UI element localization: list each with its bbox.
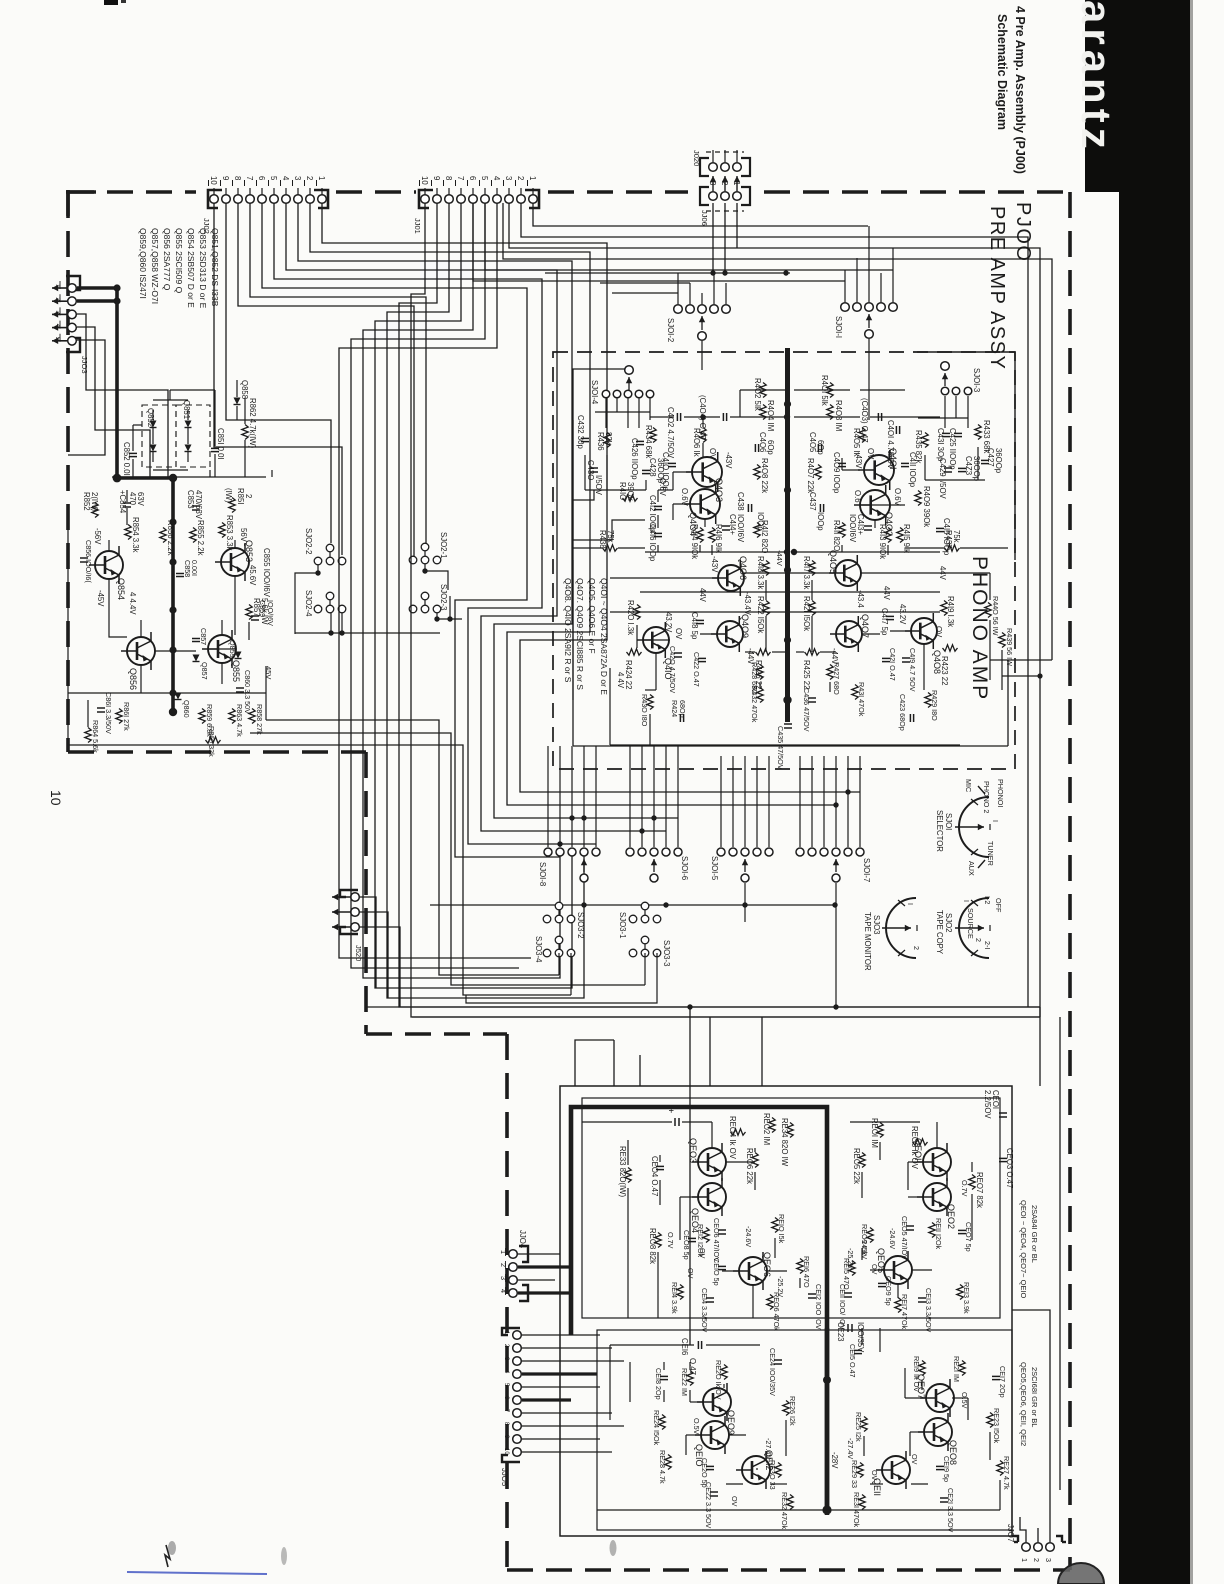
svg-text:C425 IIOOp: C425 IIOOp — [948, 428, 957, 470]
resistor RE16 470 — [797, 1259, 803, 1274]
capacitor C404 0.47 — [722, 413, 724, 421]
svg-text:RE2I IM: RE2I IM — [952, 1356, 961, 1382]
connector row SJ01-1 — [841, 303, 850, 312]
wire PSU top rail — [112, 476, 266, 478]
svg-text:RE3O 33: RE3O 33 — [768, 1460, 777, 1490]
resistor R440 56 1W — [985, 603, 991, 618]
svg-text:SJO3-4: SJO3-4 — [534, 936, 543, 963]
svg-text:R4I9 I.3k: R4I9 I.3k — [946, 596, 955, 627]
capacitor C427 3600p — [981, 459, 989, 461]
resistor R857 5.6k 1W — [246, 605, 252, 620]
resistor RE19 1k — [919, 1361, 925, 1376]
svg-text:R4I6 9Ik: R4I6 9Ik — [714, 524, 723, 553]
transistor Q856 — [121, 632, 155, 670]
svg-text:R4II 82O: R4II 82O — [832, 520, 841, 551]
capacitor C414 100/16V — [722, 525, 730, 527]
capacitor CE24 100/35V — [774, 1359, 782, 1361]
svg-text:Q4OI: Q4OI — [888, 448, 898, 470]
svg-text:JJO5: JJO5 — [500, 1468, 509, 1487]
resistor R855 2.2k — [190, 528, 196, 543]
svg-text:QEO6: QEO6 — [762, 1252, 772, 1277]
svg-text:OV: OV — [934, 626, 943, 638]
long horizontal rails into lower amp — [366, 1006, 1040, 1008]
capacitor C424 680p — [679, 714, 681, 722]
svg-text:C86I 3.3/50V: C86I 3.3/50V — [104, 692, 113, 734]
svg-text:SJOI-7: SJOI-7 — [862, 858, 871, 882]
svg-text:SJO3-1: SJO3-1 — [618, 912, 627, 938]
svg-text:R424: R424 — [670, 700, 679, 717]
resistor R439 56 1W — [999, 633, 1005, 648]
svg-text:REI3 3.9k: REI3 3.9k — [962, 1282, 971, 1314]
svg-text:Q4O9: Q4O9 — [740, 614, 750, 638]
svg-text:4: 4 — [492, 176, 501, 181]
svg-text:Q851,Q852 DS-I33B: Q851,Q852 DS-I33B — [210, 228, 220, 307]
resistor RE07 82k — [969, 1175, 975, 1190]
resistor R863 4.7k — [229, 709, 235, 724]
resistor R851 2(1W) — [229, 498, 235, 513]
capacitor C437 100p — [819, 504, 821, 512]
svg-text:R4OI 5Ik: R4OI 5Ik — [820, 375, 829, 406]
resistor R401 51k — [827, 383, 833, 398]
resistor RE26 12k — [783, 1401, 789, 1416]
svg-text:R425 22: R425 22 — [802, 660, 811, 689]
resistor RE15 470 — [849, 1261, 855, 1276]
thick wire JJ05 pin6 — [522, 1398, 571, 1401]
capacitor CE14 3.3/50V — [706, 1297, 714, 1299]
svg-text:-43.4: -43.4 — [856, 590, 865, 608]
connector SJ03-1 — [629, 915, 637, 923]
capacitor CE05 47/10V — [906, 1225, 914, 1227]
svg-text:R858 27k: R858 27k — [255, 704, 264, 735]
wires JJ07 up — [1020, 1517, 1026, 1542]
transistor Q853 — [215, 543, 249, 581]
wires PSU to middle bundle — [266, 720, 559, 975]
svg-text:C437: C437 — [808, 492, 817, 511]
svg-text:RE24 I5Ok: RE24 I5Ok — [652, 1410, 661, 1446]
svg-text:2(IW): 2(IW) — [90, 492, 99, 511]
resistor RE25 12k — [861, 1417, 867, 1432]
resistor RE33 820(1W) — [625, 1168, 631, 1183]
page corner marks top left — [104, 0, 118, 5]
diode Q851a — [185, 421, 192, 428]
capacitor C418 5p — [696, 619, 704, 621]
svg-text:SJO3: SJO3 — [872, 915, 881, 935]
svg-text:R423 22: R423 22 — [940, 656, 949, 685]
phono lower mesh wires — [640, 591, 940, 593]
outer dashed border right edge — [1068, 192, 1072, 1570]
resistor R421 150k — [809, 601, 815, 616]
svg-text:R4O9 39Ok: R4O9 39Ok — [922, 486, 931, 527]
capacitor C402 4.7/50V — [676, 413, 678, 421]
resistor R861 27k — [116, 709, 122, 724]
svg-text:-25.2V: -25.2V — [776, 1276, 785, 1297]
lower amp thick border — [571, 1107, 827, 1515]
connector row SJ01-8 — [544, 848, 552, 856]
svg-text:C4I6 IOOp: C4I6 IOOp — [648, 524, 657, 562]
resistor RE13 3.9k — [957, 1285, 963, 1300]
right side vertical to JJ07 — [1059, 1017, 1061, 1490]
resistor RE10 15k — [772, 1218, 778, 1233]
resistor R413 910k — [885, 528, 891, 543]
transistor QE02 — [917, 1178, 951, 1216]
svg-text:CEO6 47/IOV: CEO6 47/IOV — [712, 1218, 721, 1262]
svg-text:SOURCE: SOURCE — [966, 908, 975, 939]
resistor R423 22 — [943, 645, 958, 651]
svg-text:7: 7 — [245, 176, 254, 180]
svg-text:REO8 82k: REO8 82k — [648, 1228, 657, 1264]
svg-text:SJO2: SJO2 — [944, 913, 953, 933]
svg-text:2: 2 — [244, 494, 253, 498]
capacitor C412 100p — [654, 505, 662, 507]
capacitor C419 4.7/50V — [902, 657, 910, 659]
svg-text:R853 3.3k: R853 3.3k — [225, 515, 234, 551]
phono right mid wires — [874, 520, 876, 528]
svg-text:SJOI-8: SJOI-8 — [538, 862, 547, 886]
resistor R402 51k — [760, 383, 766, 398]
connector JJ06 — [700, 187, 709, 205]
wire JJ02 pin 7 to SJ02-1 — [250, 203, 426, 543]
capacitor C413 100/16V — [864, 525, 872, 527]
resistor R856 2.2k — [160, 528, 166, 543]
svg-text:R4I2 82O: R4I2 82O — [760, 520, 769, 553]
resistor R403 1M — [827, 405, 833, 420]
resistor R429 180 — [925, 693, 931, 708]
transistor QE10 — [695, 1416, 729, 1454]
outer dashed border left edge — [66, 192, 70, 752]
svg-text:I: I — [991, 820, 1000, 822]
capacitor C859 100/16V — [251, 615, 259, 617]
svg-text:PJOO: PJOO — [1012, 202, 1034, 262]
outer dashed border step y=1034 — [366, 1032, 507, 1036]
svg-text:JJO3: JJO3 — [80, 356, 89, 374]
resistor R414 910k — [697, 528, 703, 543]
transistor QE07 — [920, 1379, 954, 1417]
svg-text:2-I: 2-I — [983, 941, 992, 949]
horizontal junction wire y=273 — [545, 272, 790, 274]
svg-text:Q855 2SCI509 Q: Q855 2SCI509 Q — [174, 228, 184, 294]
svg-text:56V: 56V — [239, 528, 248, 543]
svg-text:2: 2 — [912, 946, 921, 950]
connector JJ05 — [502, 1328, 520, 1335]
svg-text:REO4 Ik OV: REO4 Ik OV — [728, 1116, 737, 1160]
transistor Q855 — [202, 630, 236, 668]
resistor R417 3.3k — [809, 561, 815, 576]
resistor R407 22k — [815, 465, 821, 480]
resistor R860 33k — [206, 737, 221, 743]
border corner solid piece — [66, 190, 96, 194]
capacitor CE10 5p — [718, 1265, 726, 1267]
capacitor CE20 5p — [706, 1465, 714, 1467]
svg-text:4: 4 — [281, 176, 290, 181]
capacitor C425 1100p — [954, 432, 962, 434]
transistor QE04 — [692, 1178, 726, 1216]
svg-text:O.5V: O.5V — [692, 1418, 701, 1435]
svg-text:R424 22: R424 22 — [624, 660, 633, 689]
capacitor C857 0.001 — [192, 638, 200, 640]
thick wire PSU horizontal link — [117, 476, 173, 480]
connector SJ02-2 — [314, 557, 322, 565]
svg-text:SJO2-1: SJO2-1 — [439, 532, 448, 558]
resistor RE18 470k — [767, 1295, 773, 1310]
SJ01-6 wiper — [653, 859, 655, 872]
capacitor CE19 5p — [936, 1465, 944, 1467]
transistor Q403 — [686, 452, 722, 492]
svg-text:R85I: R85I — [236, 488, 245, 504]
svg-text:4 4V: 4 4V — [616, 672, 625, 689]
connector SJ02-3 — [409, 605, 417, 613]
capacitor C852 0.01 — [129, 452, 137, 454]
svg-text:10: 10 — [48, 790, 64, 806]
svg-text:OV: OV — [674, 628, 683, 640]
svg-text:Q859,Q860 IS247I: Q859,Q860 IS247I — [138, 228, 148, 299]
svg-text:2SCI68I GR or BL: 2SCI68I GR or BL — [1030, 1367, 1039, 1427]
svg-text:SJO3-2: SJO3-2 — [576, 912, 585, 938]
resistor RE12 120k — [703, 1228, 709, 1243]
svg-text:4 Pre Amp. Assembly (PJ00): 4 Pre Amp. Assembly (PJ00) — [1013, 6, 1027, 174]
svg-text:IOO/I6V: IOO/I6V — [848, 514, 857, 543]
svg-text:R4O6 Ik: R4O6 Ik — [692, 428, 701, 457]
capacitor C423 3600p — [958, 467, 966, 469]
svg-text:R857: R857 — [252, 598, 261, 617]
svg-text:75k: 75k — [606, 530, 615, 543]
svg-text:SJOI-2: SJOI-2 — [666, 318, 675, 342]
svg-text:C432 30p: C432 30p — [576, 415, 585, 449]
resistor RE30 33 — [775, 1463, 781, 1478]
capacitor C423b 680p — [909, 714, 911, 722]
capacitor C438 100p — [747, 504, 749, 512]
resistor RE32 470k — [787, 1495, 793, 1510]
capacitor C422 0.47 — [698, 657, 706, 659]
svg-text:43.2V: 43.2V — [898, 604, 907, 625]
resistor R409 390k — [915, 491, 921, 506]
svg-text:C435 47/5OV: C435 47/5OV — [776, 726, 785, 770]
resistor R436 82k — [604, 433, 610, 448]
capacitor electrolytic top left — [674, 1118, 676, 1126]
svg-text:REO7 82k: REO7 82k — [975, 1172, 984, 1208]
svg-text:IOOp: IOOp — [816, 512, 825, 531]
svg-text:C42I O.47: C42I O.47 — [888, 648, 897, 681]
svg-text:2: 2 — [516, 176, 525, 180]
svg-text:C85I 0.0I: C85I 0.0I — [216, 428, 225, 460]
capacitor CE12 100/10V — [808, 1293, 816, 1295]
svg-text:JJO4: JJO4 — [518, 1230, 527, 1249]
diode Q859 — [235, 652, 242, 659]
svg-text:1: 1 — [1020, 1558, 1029, 1562]
svg-text:470/63V: 470/63V — [194, 490, 203, 520]
SJ01-7 wiper — [835, 859, 837, 872]
svg-text:CEI7 2Op: CEI7 2Op — [998, 1366, 1007, 1398]
transistor QE08 — [918, 1413, 952, 1451]
svg-text:6: 6 — [468, 176, 477, 180]
resistor RE11 120k — [929, 1223, 935, 1238]
marantz logo block — [1085, 0, 1123, 192]
SJ01-3 network wires — [944, 396, 946, 428]
resistor R435 82k — [922, 433, 928, 448]
svg-text:MIC: MIC — [964, 779, 973, 792]
connector row SJ01-4 — [602, 390, 610, 398]
phono left rails — [650, 416, 674, 418]
svg-text:-43V: -43V — [724, 452, 733, 469]
connector SJ02-4 — [314, 605, 322, 613]
resistor R426 22 — [756, 649, 771, 655]
wire JJ02 pin 9 long drop — [226, 203, 331, 543]
thick wire JJ03 pin2 feed — [77, 299, 117, 303]
svg-text:R42I I5Ok: R42I I5Ok — [802, 596, 811, 631]
resistor RE21 1M — [959, 1361, 965, 1376]
svg-text:C852 0.0I: C852 0.0I — [122, 442, 131, 476]
connector JJ07 — [1012, 1536, 1018, 1542]
svg-text:C857: C857 — [199, 628, 208, 645]
connector J520 — [340, 890, 358, 897]
svg-text:QEOI ~ QEO4, QEO7~ QEIO: QEOI ~ QEO4, QEO7~ QEIO — [1019, 1200, 1028, 1299]
wire SJ02-4 bottom rail — [295, 632, 440, 634]
resistor R410 390k — [623, 495, 638, 501]
svg-text:3: 3 — [504, 176, 513, 180]
svg-text:PHONO AMP: PHONO AMP — [968, 556, 991, 701]
lower amp right mesh wires — [850, 1121, 920, 1123]
capacitor CE04 0.47 — [656, 1165, 664, 1167]
svg-text:CEI9 5p: CEI9 5p — [942, 1456, 951, 1482]
outer dashed border left edge bottom — [505, 1034, 509, 1570]
connector SJ03-4 — [543, 949, 551, 957]
svg-text:5: 5 — [480, 176, 489, 181]
wire JJ03 pin4 — [77, 327, 150, 477]
svg-text:SJOI-3: SJOI-3 — [972, 368, 981, 392]
svg-text:36OOp: 36OOp — [994, 448, 1003, 474]
dust mark 3 — [610, 1540, 617, 1556]
svg-text:R4O8 22k: R4O8 22k — [760, 458, 769, 493]
svg-text:CEI2 IOO IOV: CEI2 IOO IOV — [814, 1284, 823, 1330]
svg-text:OV: OV — [870, 1470, 879, 1481]
outer dashed border left edge lower — [364, 752, 368, 1034]
svg-text:R436: R436 — [596, 432, 605, 451]
svg-text:SJOI-4: SJOI-4 — [590, 380, 599, 405]
capacitor C431 30p — [942, 432, 950, 434]
svg-text:44V: 44V — [698, 588, 707, 603]
svg-text:1: 1 — [732, 181, 741, 185]
svg-text:RE29 33: RE29 33 — [850, 1460, 859, 1488]
svg-text:C4I4+: C4I4+ — [728, 514, 737, 535]
svg-text:CE22 3.3 5OV: CE22 3.3 5OV — [704, 1482, 713, 1529]
left input mesh wires — [584, 455, 586, 490]
resistor R405 1k — [859, 428, 865, 443]
svg-text:-43V: -43V — [710, 556, 719, 573]
diode Q851b — [185, 445, 192, 452]
svg-text:C423 68Op: C423 68Op — [898, 694, 907, 731]
resistor R434 68k — [650, 428, 656, 443]
svg-text:REII I2Ok: REII I2Ok — [934, 1218, 943, 1250]
connector SJ01-3 input — [941, 362, 950, 371]
capacitor C426 1100p — [636, 440, 644, 442]
capacitor C436 47/50V — [808, 697, 816, 699]
connector SJ03-2 — [543, 915, 551, 923]
svg-text:R43O I8O: R43O I8O — [640, 694, 649, 727]
svg-text:PRE AMP ASSY: PRE AMP ASSY — [986, 206, 1008, 370]
svg-text:REI6 47O: REI6 47O — [802, 1256, 811, 1288]
resistor R420 1.3k — [634, 605, 640, 620]
capacitor CE21 3.3/50V — [940, 1497, 948, 1499]
connector J020 — [700, 158, 709, 176]
capacitor C430 1/50V — [590, 467, 598, 469]
connector JJ04 — [519, 1246, 528, 1262]
transistor QE09 — [697, 1383, 731, 1421]
verticals inside top of lower box — [613, 1040, 615, 1086]
resistor R853 3.3k — [219, 523, 225, 538]
svg-text:CEO3 O.47: CEO3 O.47 — [1005, 1148, 1014, 1188]
svg-text:470: 470 — [128, 492, 137, 506]
svg-text:R434 68k: R434 68k — [644, 425, 653, 458]
capacitor C860 3.3/50V — [236, 687, 244, 689]
svg-text:R4IO: R4IO — [618, 482, 627, 500]
svg-text:82k: 82k — [604, 432, 613, 445]
right side long vertical wires — [1027, 262, 1029, 1007]
svg-text:R4I5 9Ik: R4I5 9Ik — [902, 524, 911, 553]
svg-text:PHONOI: PHONOI — [996, 779, 1005, 807]
svg-text:arantz: arantz — [1073, 0, 1120, 154]
resistor RE27 4.7k — [997, 1461, 1003, 1476]
svg-text:CEO5 47/IOV: CEO5 47/IOV — [900, 1216, 909, 1260]
svg-text:REO6 47Ok: REO6 47Ok — [772, 1292, 781, 1331]
resistor RE22 1M — [687, 1371, 693, 1386]
svg-text:-44V: -44V — [775, 550, 784, 566]
resistor R428 680 — [757, 665, 763, 680]
svg-text:SJO3-3: SJO3-3 — [662, 940, 671, 966]
svg-text:JJ06: JJ06 — [700, 210, 709, 226]
svg-text:RE2O Ik OV: RE2O Ik OV — [714, 1360, 723, 1400]
svg-text:O.7V: O.7V — [960, 1180, 969, 1197]
resistor R433 68k — [975, 425, 981, 440]
svg-text:I: I — [906, 903, 915, 905]
svg-text:RE23 I5Ok: RE23 I5Ok — [992, 1408, 1001, 1444]
lower amp inner partition — [582, 1098, 1000, 1318]
capacitor C853 470/63V — [192, 505, 200, 507]
svg-text:CEO9 5p: CEO9 5p — [884, 1276, 893, 1306]
svg-text:R429 I8O: R429 I8O — [930, 690, 939, 721]
svg-text:I: I — [962, 900, 971, 902]
svg-text:TAPE COPY: TAPE COPY — [935, 910, 944, 955]
svg-text:R856 2.2k: R856 2.2k — [166, 520, 175, 556]
resistor RE28 4.7k — [665, 1455, 671, 1470]
svg-text:R422 I5Ok: R422 I5Ok — [756, 596, 765, 633]
svg-text:C853: C853 — [186, 490, 195, 509]
svg-text:QEO9: QEO9 — [726, 1410, 736, 1435]
svg-text:10: 10 — [420, 176, 429, 185]
svg-text:-24.6V: -24.6V — [744, 1226, 753, 1247]
svg-text:C436 47/5OV: C436 47/5OV — [802, 688, 811, 732]
capacitor CE18 20p — [660, 1375, 668, 1377]
diode Q852a — [150, 421, 157, 428]
svg-text:CEI5 O.47: CEI5 O.47 — [848, 1344, 857, 1378]
thick wire JJ05 pin4 — [522, 1372, 597, 1375]
svg-text:OV: OV — [698, 1248, 707, 1259]
thick wire PSU vertical bus — [171, 478, 175, 712]
svg-text:Q4O6: Q4O6 — [738, 556, 748, 580]
wires below SJ03 — [558, 953, 560, 975]
thick -44V bus — [785, 348, 790, 722]
SJ01-3 lower wires — [924, 455, 926, 480]
wire JJ03 pin3 — [77, 314, 168, 477]
svg-text:REO5 22k: REO5 22k — [852, 1148, 861, 1184]
svg-text:CE24 IOO/35V: CE24 IOO/35V — [768, 1348, 777, 1396]
svg-text:(IW): (IW) — [224, 488, 233, 503]
capacitor C401 4.7/50V — [895, 426, 897, 434]
capacitor CE13 3.3/50V — [918, 1297, 926, 1299]
svg-text:O.6V: O.6V — [658, 478, 667, 497]
capacitor C416 100p — [654, 532, 662, 534]
svg-text:RE26 I2k: RE26 I2k — [788, 1396, 797, 1426]
svg-text:75k: 75k — [952, 530, 961, 543]
capacitor CE06 47/10V — [718, 1229, 726, 1231]
